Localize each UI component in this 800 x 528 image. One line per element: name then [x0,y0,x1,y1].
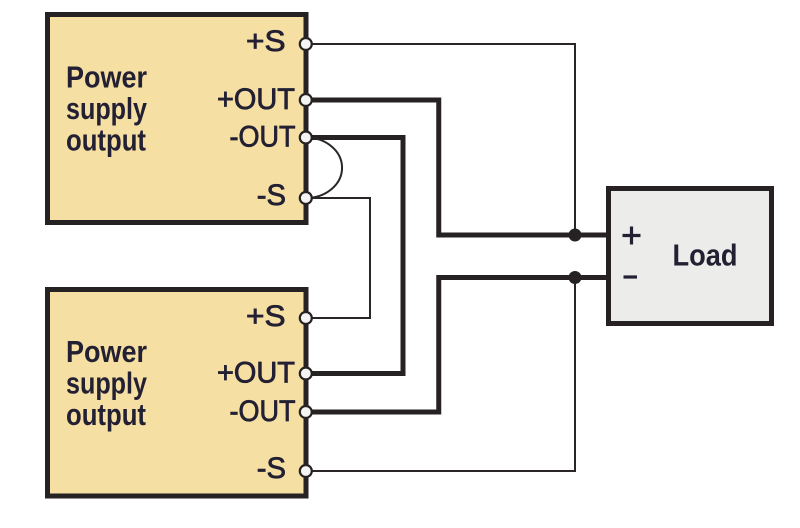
svg-text:Power: Power [66,335,147,369]
svg-text:Power: Power [66,61,147,95]
svg-text:+OUT: +OUT [217,357,295,390]
svg-text:+OUT: +OUT [217,83,295,116]
svg-text:+S: +S [246,25,286,58]
svg-text:supply: supply [66,367,147,401]
svg-text:-OUT: -OUT [230,395,296,428]
svg-text:-S: -S [257,179,286,212]
svg-text:Load: Load [673,239,738,273]
svg-text:output: output [66,398,146,432]
svg-text:-OUT: -OUT [230,121,296,154]
svg-text:output: output [66,124,146,158]
svg-text:+S: +S [246,300,286,333]
svg-text:supply: supply [66,92,147,126]
svg-text:-S: -S [257,452,286,485]
